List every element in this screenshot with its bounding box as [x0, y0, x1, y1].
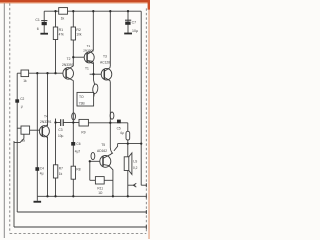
- terminal tick input line: [145, 210, 147, 214]
- transistor T5: [100, 153, 112, 168]
- loudspeaker LS1: [124, 153, 132, 175]
- svg-text:T1: T1: [85, 66, 89, 70]
- svg-text:10µ: 10µ: [132, 29, 138, 33]
- eyelet connector near T1 emitter: [92, 84, 98, 94]
- eyelet connector on T2 emitter line: [72, 113, 76, 120]
- ground symbol bottom rail: [34, 196, 42, 202]
- svg-text:T2: T2: [67, 57, 71, 61]
- wire T5 base branch: [90, 160, 100, 162]
- svg-text:C6: C6: [76, 142, 80, 146]
- wire pigtail to return: [14, 139, 24, 143]
- wire feedback vertical: [47, 73, 49, 126]
- junction tie-speaker branch: [127, 142, 129, 144]
- svg-text:1k: 1k: [59, 172, 63, 176]
- svg-text:C4: C4: [40, 166, 44, 170]
- junction base line-C4 branch: [36, 72, 38, 74]
- page spine line left: [3, 3, 5, 238]
- wire eyelet to block: [90, 93, 94, 104]
- arrow chevron on stub: [133, 183, 136, 187]
- wire coupling line mid3: [88, 122, 127, 124]
- junction ground rail-R8: [72, 195, 74, 197]
- dashed border left: [9, 3, 11, 233]
- transistor T3: [101, 66, 112, 82]
- junction rail-T1 collector: [92, 10, 94, 12]
- wire R2 vertical from rail: [72, 11, 74, 66]
- resistor R2: [71, 27, 75, 40]
- svg-text:R2: R2: [76, 28, 81, 32]
- junction coupling-R7: [54, 121, 56, 123]
- wire collector tie tick: [114, 144, 118, 151]
- svg-text:0,2: 0,2: [133, 166, 138, 170]
- wire T3 emitter vertical lower: [110, 82, 113, 154]
- junction rail-C7: [127, 10, 129, 12]
- wire battery plus exit: [141, 184, 147, 186]
- wire return vertical left: [13, 141, 15, 227]
- wire input exit bottom: [17, 211, 147, 213]
- svg-text:C5: C5: [117, 126, 121, 130]
- svg-text:T5: T5: [101, 143, 105, 147]
- wire base feed line node B: [17, 72, 62, 74]
- junction input line-C2: [16, 100, 18, 102]
- wire T5 emitter down: [109, 166, 113, 197]
- wire T1 collector vertical: [92, 11, 94, 50]
- wire output below R10: [127, 140, 129, 157]
- resistor R8: [71, 166, 75, 179]
- svg-text:6: 6: [37, 27, 39, 31]
- capacitor C6 series in emitter chain: [71, 142, 75, 146]
- dashed border bottom: [10, 232, 147, 234]
- wire C1 drop from rail: [43, 11, 45, 33]
- wire ground rail bottom: [37, 195, 147, 197]
- svg-text:T4: T4: [44, 115, 48, 119]
- svg-text:4µ: 4µ: [40, 172, 44, 176]
- wire top supply rail: [44, 10, 141, 12]
- svg-text:4µ: 4µ: [120, 131, 124, 135]
- svg-text:1k: 1k: [23, 79, 27, 83]
- svg-text:73B: 73B: [79, 101, 86, 105]
- svg-text:1k: 1k: [61, 17, 65, 21]
- svg-text:47k: 47k: [59, 32, 65, 36]
- svg-text:R9: R9: [81, 130, 85, 134]
- svg-text:µ: µ: [21, 104, 23, 108]
- junction ground rail-T4 emitter: [46, 195, 48, 197]
- svg-text:2N3391: 2N3391: [62, 63, 74, 67]
- terminal tick battery plus: [145, 183, 147, 187]
- wire R1 vertical from rail: [55, 11, 57, 73]
- junction base line-feedback: [46, 72, 48, 74]
- wire coupling line mid2: [64, 122, 79, 124]
- svg-text:C3: C3: [58, 128, 62, 132]
- svg-text:10k: 10k: [76, 33, 82, 37]
- wire T2 emitter vertical: [72, 81, 74, 197]
- resistor R9 series in coupling line: [79, 119, 88, 126]
- svg-text:R1: R1: [59, 28, 64, 32]
- resistor R10 small: [126, 131, 130, 140]
- svg-text:C7: C7: [132, 20, 137, 24]
- svg-text:C1: C1: [35, 18, 40, 22]
- svg-text:2N3391: 2N3391: [40, 120, 52, 124]
- transistor T1: [84, 50, 94, 64]
- eyelet connector on T3 emitter line: [110, 112, 114, 119]
- capacitor C2 series in input line: [15, 99, 19, 102]
- svg-text:1Ω: 1Ω: [98, 191, 103, 195]
- svg-text:TO: TO: [79, 95, 84, 99]
- wire R11 left: [90, 179, 96, 181]
- junction base line-R1: [54, 72, 56, 74]
- block label frame: [77, 92, 94, 106]
- wire coupling line mid: [56, 122, 61, 124]
- wire R7 vertical: [55, 119, 57, 197]
- mic input box MIC1: [21, 126, 30, 134]
- wire C7 drop from rail: [127, 11, 129, 33]
- resistor R1: [53, 27, 57, 40]
- svg-text:C2: C2: [20, 97, 24, 101]
- wire T3 base line: [90, 73, 102, 75]
- wire input vertical left: [16, 73, 18, 212]
- svg-text:10µ: 10µ: [58, 134, 64, 138]
- eyelet tick on coupling line start: [55, 119, 57, 123]
- junction rail-R1: [54, 10, 56, 12]
- terminal tick return line: [145, 225, 147, 229]
- wire T1 emitter down: [93, 61, 95, 84]
- wire T1 base feed: [73, 56, 84, 58]
- svg-text:2N3905: 2N3905: [83, 49, 94, 53]
- resistor R3 series in base line: [21, 70, 29, 77]
- wire speaker bottom: [127, 171, 129, 197]
- junction coupling-T2 emitter: [72, 121, 74, 123]
- svg-text:da: da: [21, 138, 25, 142]
- junction R2-T1 base: [72, 56, 74, 58]
- svg-text:T1: T1: [87, 44, 91, 48]
- junction rail-R2: [72, 10, 74, 12]
- junction rail-T3 collector: [109, 10, 111, 12]
- wire R11 right: [104, 179, 113, 181]
- junction T1 emitter-T3 base: [92, 73, 94, 75]
- junction T5 base-R11: [89, 160, 91, 162]
- wire collector tie line: [118, 143, 142, 145]
- transistor T4: [39, 124, 49, 138]
- svg-text:LS: LS: [133, 160, 137, 164]
- junction ground rail-speaker: [127, 195, 129, 197]
- wire mic box pigtail: [23, 134, 25, 138]
- page corner orange block top-right: [148, 0, 150, 239]
- svg-text:R11: R11: [97, 186, 103, 190]
- capacitor C3 plates in coupling line: [61, 119, 64, 126]
- wire speaker stub arrow: [128, 184, 136, 186]
- wire mic box to T4 base: [30, 129, 40, 131]
- capacitor C1 electrolytic top-left: [40, 21, 48, 35]
- svg-text:4µ7: 4µ7: [75, 150, 81, 154]
- junction tie-supply drop: [140, 142, 142, 144]
- transistor T2: [63, 66, 74, 81]
- wire T5 base down: [89, 161, 91, 180]
- svg-text:R7: R7: [59, 166, 63, 170]
- wire return exit bottom: [14, 226, 147, 228]
- resistor R4 series in rail: [59, 8, 68, 15]
- wire C4 branch vertical: [36, 73, 38, 196]
- resistor R7: [53, 165, 57, 178]
- svg-text:AD162: AD162: [97, 149, 107, 153]
- junction coupling-T3 emitter: [109, 122, 111, 124]
- capacitor C7 electrolytic top-right: [124, 20, 132, 34]
- capacitor C5 series in output line: [117, 120, 121, 124]
- wire right supply drop: [140, 11, 142, 185]
- capacitor C4 series in branch: [35, 167, 39, 171]
- wire output corner down: [127, 123, 129, 132]
- dashed border right: [145, 8, 147, 233]
- svg-text:AC128: AC128: [100, 60, 110, 64]
- wire T4 emitter lower vertical: [47, 137, 49, 197]
- wire T3 collector vertical: [109, 11, 111, 66]
- wire mic box left connection: [17, 127, 21, 129]
- svg-text:R8: R8: [76, 167, 80, 171]
- svg-text:T3: T3: [103, 54, 107, 58]
- junction ground rail-R7: [54, 195, 56, 197]
- resistor R11: [95, 177, 104, 184]
- page header orange bar: [0, 0, 150, 3]
- terminal tick ground rail: [145, 194, 147, 198]
- junction ground rail-T5 emitter: [112, 195, 114, 197]
- eyelet connector near T5 base: [91, 152, 95, 159]
